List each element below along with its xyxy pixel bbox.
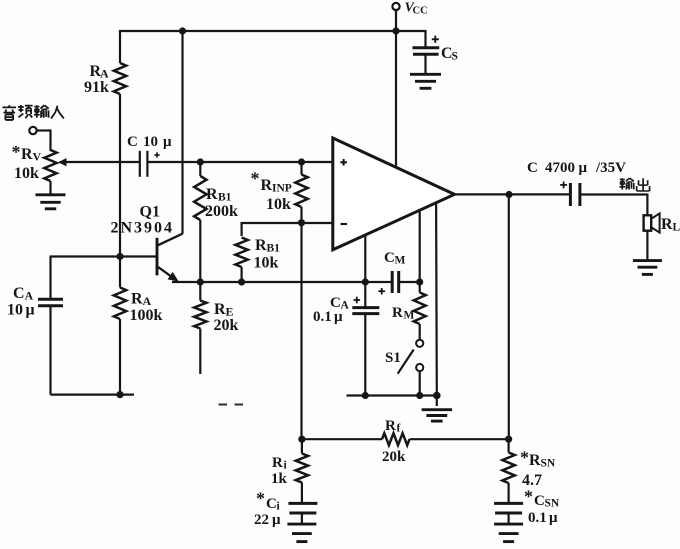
svg-text:R: R xyxy=(272,455,283,471)
wire rail to CS xyxy=(396,30,426,47)
svg-text:SN: SN xyxy=(545,498,560,510)
capacitor CA 10u xyxy=(7,285,63,319)
wire output cap to RL xyxy=(580,194,648,216)
resistor RB1 200k xyxy=(194,162,238,282)
wire RV wiper to coupling cap C xyxy=(65,161,139,163)
capacitor C 10u coupling xyxy=(127,134,172,177)
svg-text:10k: 10k xyxy=(254,255,279,272)
capacitor CS polarized bypass xyxy=(413,36,458,74)
svg-text:CC: CC xyxy=(413,6,428,17)
node VCC supply terminal xyxy=(392,1,427,17)
potentiometer RV 10k xyxy=(12,142,68,194)
svg-text:A: A xyxy=(25,289,34,303)
wire input terminal to RV top xyxy=(37,130,51,152)
junction output node xyxy=(505,191,512,198)
svg-text:μ: μ xyxy=(163,134,172,150)
svg-text:INP: INP xyxy=(272,183,292,195)
svg-text:SN: SN xyxy=(541,458,556,470)
junction RM top xyxy=(416,278,423,285)
wire feedback left xyxy=(302,438,382,440)
svg-text:*: * xyxy=(251,169,260,189)
wire CM right to RM junction xyxy=(399,281,420,283)
wire op-amp pin to RM top junction xyxy=(419,210,421,282)
junction Ri / Rf left xyxy=(298,436,305,443)
wire RA-91k bottom to Q1 base junction xyxy=(119,94,121,257)
svg-text:R: R xyxy=(21,146,33,163)
junction collector to rail xyxy=(179,27,186,34)
svg-text:100k: 100k xyxy=(130,307,163,324)
svg-text:20k: 20k xyxy=(214,317,239,334)
svg-text:91k: 91k xyxy=(84,79,109,96)
svg-text:10: 10 xyxy=(7,302,23,319)
svg-text:*: * xyxy=(256,489,265,509)
svg-text:R: R xyxy=(661,216,673,233)
svg-text:M: M xyxy=(404,310,415,322)
stray dashes xyxy=(219,404,244,406)
wire base node left to CA xyxy=(51,256,121,299)
svg-text:10: 10 xyxy=(143,134,158,150)
svg-text:Q1: Q1 xyxy=(140,204,160,221)
transistor Q1 2N3904 xyxy=(111,204,183,282)
svg-text:L: L xyxy=(673,222,680,234)
svg-text:μ: μ xyxy=(579,160,588,176)
ground below CSN xyxy=(494,524,523,542)
resistor RA 91k xyxy=(84,30,126,96)
resistor RB1 10k xyxy=(235,237,280,282)
svg-text:R: R xyxy=(255,237,267,254)
resistor Ri 1k xyxy=(271,439,308,503)
wire Q1 emitter line xyxy=(172,281,391,283)
wire jog to RB1 10k xyxy=(242,222,302,236)
wire inverting node down to feedback xyxy=(300,223,302,439)
svg-text:10k: 10k xyxy=(266,196,291,213)
ground below RV xyxy=(36,195,66,209)
junction CA-0.1 bottom xyxy=(362,392,369,399)
svg-text:C: C xyxy=(527,160,538,176)
resistor RM xyxy=(392,282,426,340)
junction VCC rail xyxy=(392,27,399,34)
wire feedback right xyxy=(410,438,509,440)
junction CA-0.1 top xyxy=(362,278,369,285)
svg-text:C: C xyxy=(534,493,545,509)
junction Rf right / RSN xyxy=(505,436,512,443)
svg-text:μ: μ xyxy=(549,510,558,526)
wire output node to feedback xyxy=(508,195,510,440)
svg-text:V: V xyxy=(33,150,42,164)
capacitor CM xyxy=(378,250,405,295)
svg-text:*: * xyxy=(12,142,21,162)
wire VCC vertical to top rail and op-amp supply pin xyxy=(395,10,397,167)
resistor Rf 20k xyxy=(382,418,410,465)
ground below RL xyxy=(633,261,662,275)
wire top supply rail xyxy=(120,30,396,32)
svg-text:/35V: /35V xyxy=(595,160,626,176)
svg-text:S: S xyxy=(452,51,458,63)
label audio-input (Chinese) xyxy=(2,105,63,120)
svg-text:f: f xyxy=(397,423,401,435)
junction RB1-200k top xyxy=(197,158,204,165)
wire bottom-left segment xyxy=(51,394,135,396)
wire C to op-amp noninverting input xyxy=(148,161,333,163)
speaker RL xyxy=(644,213,680,233)
junction ground-bus xyxy=(433,392,441,400)
svg-text:μ: μ xyxy=(26,302,35,319)
ground below CS xyxy=(410,74,441,88)
svg-text:0.1: 0.1 xyxy=(313,309,332,325)
svg-text:M: M xyxy=(395,255,406,267)
wire stub to ground xyxy=(436,396,438,407)
op-amp U1 xyxy=(333,138,455,250)
svg-text:C: C xyxy=(384,250,395,266)
junction emitter / RB1-200k / RE xyxy=(197,278,204,285)
junction RB1-10k bottom on emitter line xyxy=(238,278,245,285)
wire RL to ground xyxy=(646,231,648,260)
svg-text:2N3904: 2N3904 xyxy=(111,220,175,237)
junction RINP top xyxy=(298,158,305,165)
svg-text:μ: μ xyxy=(272,512,281,528)
svg-text:22: 22 xyxy=(254,512,269,528)
svg-text:R: R xyxy=(214,301,226,318)
capacitor Ci 22u xyxy=(254,489,317,529)
svg-text:μ: μ xyxy=(334,309,343,325)
svg-text:*: * xyxy=(524,487,533,507)
svg-text:B1: B1 xyxy=(218,192,232,204)
ground below Ci xyxy=(287,524,316,542)
wire op-amp pin to ground bus xyxy=(435,203,438,396)
switch S1 xyxy=(385,340,423,396)
wire compensation ground bus xyxy=(347,394,439,396)
svg-text:S1: S1 xyxy=(385,350,401,366)
svg-text:10k: 10k xyxy=(14,165,39,182)
svg-text:C: C xyxy=(13,285,25,302)
svg-text:R: R xyxy=(261,177,273,194)
resistor RINP 10k across inputs xyxy=(251,162,308,223)
junction Q1 base node xyxy=(116,253,123,260)
svg-text:R: R xyxy=(131,291,143,308)
svg-text:0.1: 0.1 xyxy=(528,510,547,526)
svg-text:R: R xyxy=(392,305,403,321)
resistor RE 20k xyxy=(194,282,238,374)
wire Q1 base xyxy=(120,255,157,257)
svg-text:C: C xyxy=(266,496,277,512)
label output (Chinese) xyxy=(619,178,649,191)
svg-text:20k: 20k xyxy=(382,449,406,465)
svg-text:R: R xyxy=(529,452,541,469)
junction inverting input node xyxy=(298,219,305,226)
svg-text:R: R xyxy=(206,186,218,203)
wire CA bottom down xyxy=(49,306,51,395)
ground below op-amp bus xyxy=(422,410,453,421)
node audio input terminal xyxy=(29,127,36,134)
junction S1 bottom xyxy=(416,392,423,399)
junction RA-100k bottom xyxy=(116,391,123,398)
svg-text:*: * xyxy=(520,448,529,468)
wire inverting node to op-amp xyxy=(302,222,333,224)
capacitor C 4700u/35V xyxy=(527,160,626,206)
capacitor CSN 0.1u xyxy=(494,487,560,527)
svg-text:1k: 1k xyxy=(271,471,288,487)
svg-text:R: R xyxy=(385,418,396,434)
svg-text:C: C xyxy=(127,134,138,150)
resistor RA 100k xyxy=(114,257,163,395)
svg-text:B1: B1 xyxy=(267,243,281,255)
capacitor CA 0.1u xyxy=(313,282,379,396)
wire op-amp pin to CM left junction xyxy=(364,234,366,282)
wire Q1 collector to rail xyxy=(181,31,183,234)
wire op-amp output xyxy=(454,193,570,195)
resistor RSN 4.7 xyxy=(502,439,555,503)
svg-text:200k: 200k xyxy=(205,203,238,220)
svg-text:4700: 4700 xyxy=(545,160,575,176)
